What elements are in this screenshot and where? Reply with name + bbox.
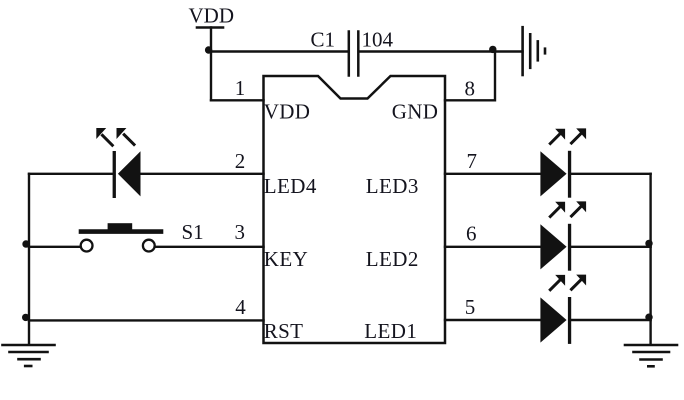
svg-text:7: 7: [467, 149, 478, 173]
wire VDD node to C1 left plate: [211, 50, 348, 52]
LED D1 (right row 3): [540, 275, 586, 344]
svg-text:2: 2: [235, 149, 246, 173]
wire pin 2 to left LED: [140, 173, 263, 175]
node VDD junction dot: [205, 46, 212, 53]
node pin8 junction dot: [489, 46, 496, 53]
svg-text:LED4: LED4: [264, 174, 317, 198]
ground (bottom left): [3, 345, 55, 366]
wire pin 6 stub: [445, 246, 540, 248]
svg-text:6: 6: [466, 222, 477, 246]
wire left rail to switch: [29, 246, 81, 248]
wire left LED to left rail: [29, 173, 113, 175]
svg-text:LED2: LED2: [366, 247, 419, 271]
svg-text:VDD: VDD: [264, 99, 310, 123]
svg-text:4: 4: [235, 295, 246, 319]
svg-text:VDD: VDD: [189, 4, 235, 28]
svg-text:RST: RST: [264, 319, 303, 343]
wire junction down to pin 8: [445, 52, 495, 101]
svg-text:8: 8: [465, 77, 476, 101]
LED D3 (right row 1): [540, 128, 586, 197]
svg-text:104: 104: [362, 28, 394, 52]
power symbol VDD: [197, 28, 223, 101]
node right rail row2 junction dot: [645, 240, 652, 247]
capacitor C1 plates: [349, 32, 359, 76]
wire LED D2 to right rail: [571, 246, 650, 248]
node right rail row3 junction dot: [645, 314, 652, 321]
wire LED D1 to right rail: [571, 319, 650, 321]
node S1 left junction dot: [22, 240, 29, 247]
wire left rail (vertical): [28, 174, 30, 345]
node RST junction dot: [22, 314, 29, 321]
wire LED D3 to right rail: [571, 173, 650, 175]
svg-text:LED1: LED1: [364, 319, 417, 343]
LED D2 (right row 2): [540, 201, 586, 270]
LED left (cathode bar + triangle + emission arrows): [96, 128, 140, 198]
svg-text:KEY: KEY: [264, 247, 308, 271]
svg-text:3: 3: [235, 220, 246, 244]
pushbutton S1: [81, 223, 161, 251]
wire pin 1 stub (VDD rail to IC): [211, 99, 264, 101]
wire right rail (vertical): [649, 174, 651, 345]
IC U1 body outline with notch: [264, 76, 446, 343]
svg-text:C1: C1: [311, 28, 336, 52]
svg-text:GND: GND: [392, 99, 438, 123]
svg-text:1: 1: [235, 76, 246, 100]
svg-text:S1: S1: [182, 220, 204, 244]
ground (top right, rotated earth): [523, 27, 545, 75]
wire pin 7 stub: [445, 173, 540, 175]
wire C1 right plate to top-right ground: [360, 50, 523, 52]
wire pin 5 stub: [445, 319, 540, 321]
wire pin 4 to left rail: [29, 319, 264, 321]
wire switch to pin 3: [155, 246, 264, 248]
svg-text:LED3: LED3: [366, 174, 419, 198]
svg-text:5: 5: [465, 295, 476, 319]
ground (bottom right): [625, 345, 677, 366]
